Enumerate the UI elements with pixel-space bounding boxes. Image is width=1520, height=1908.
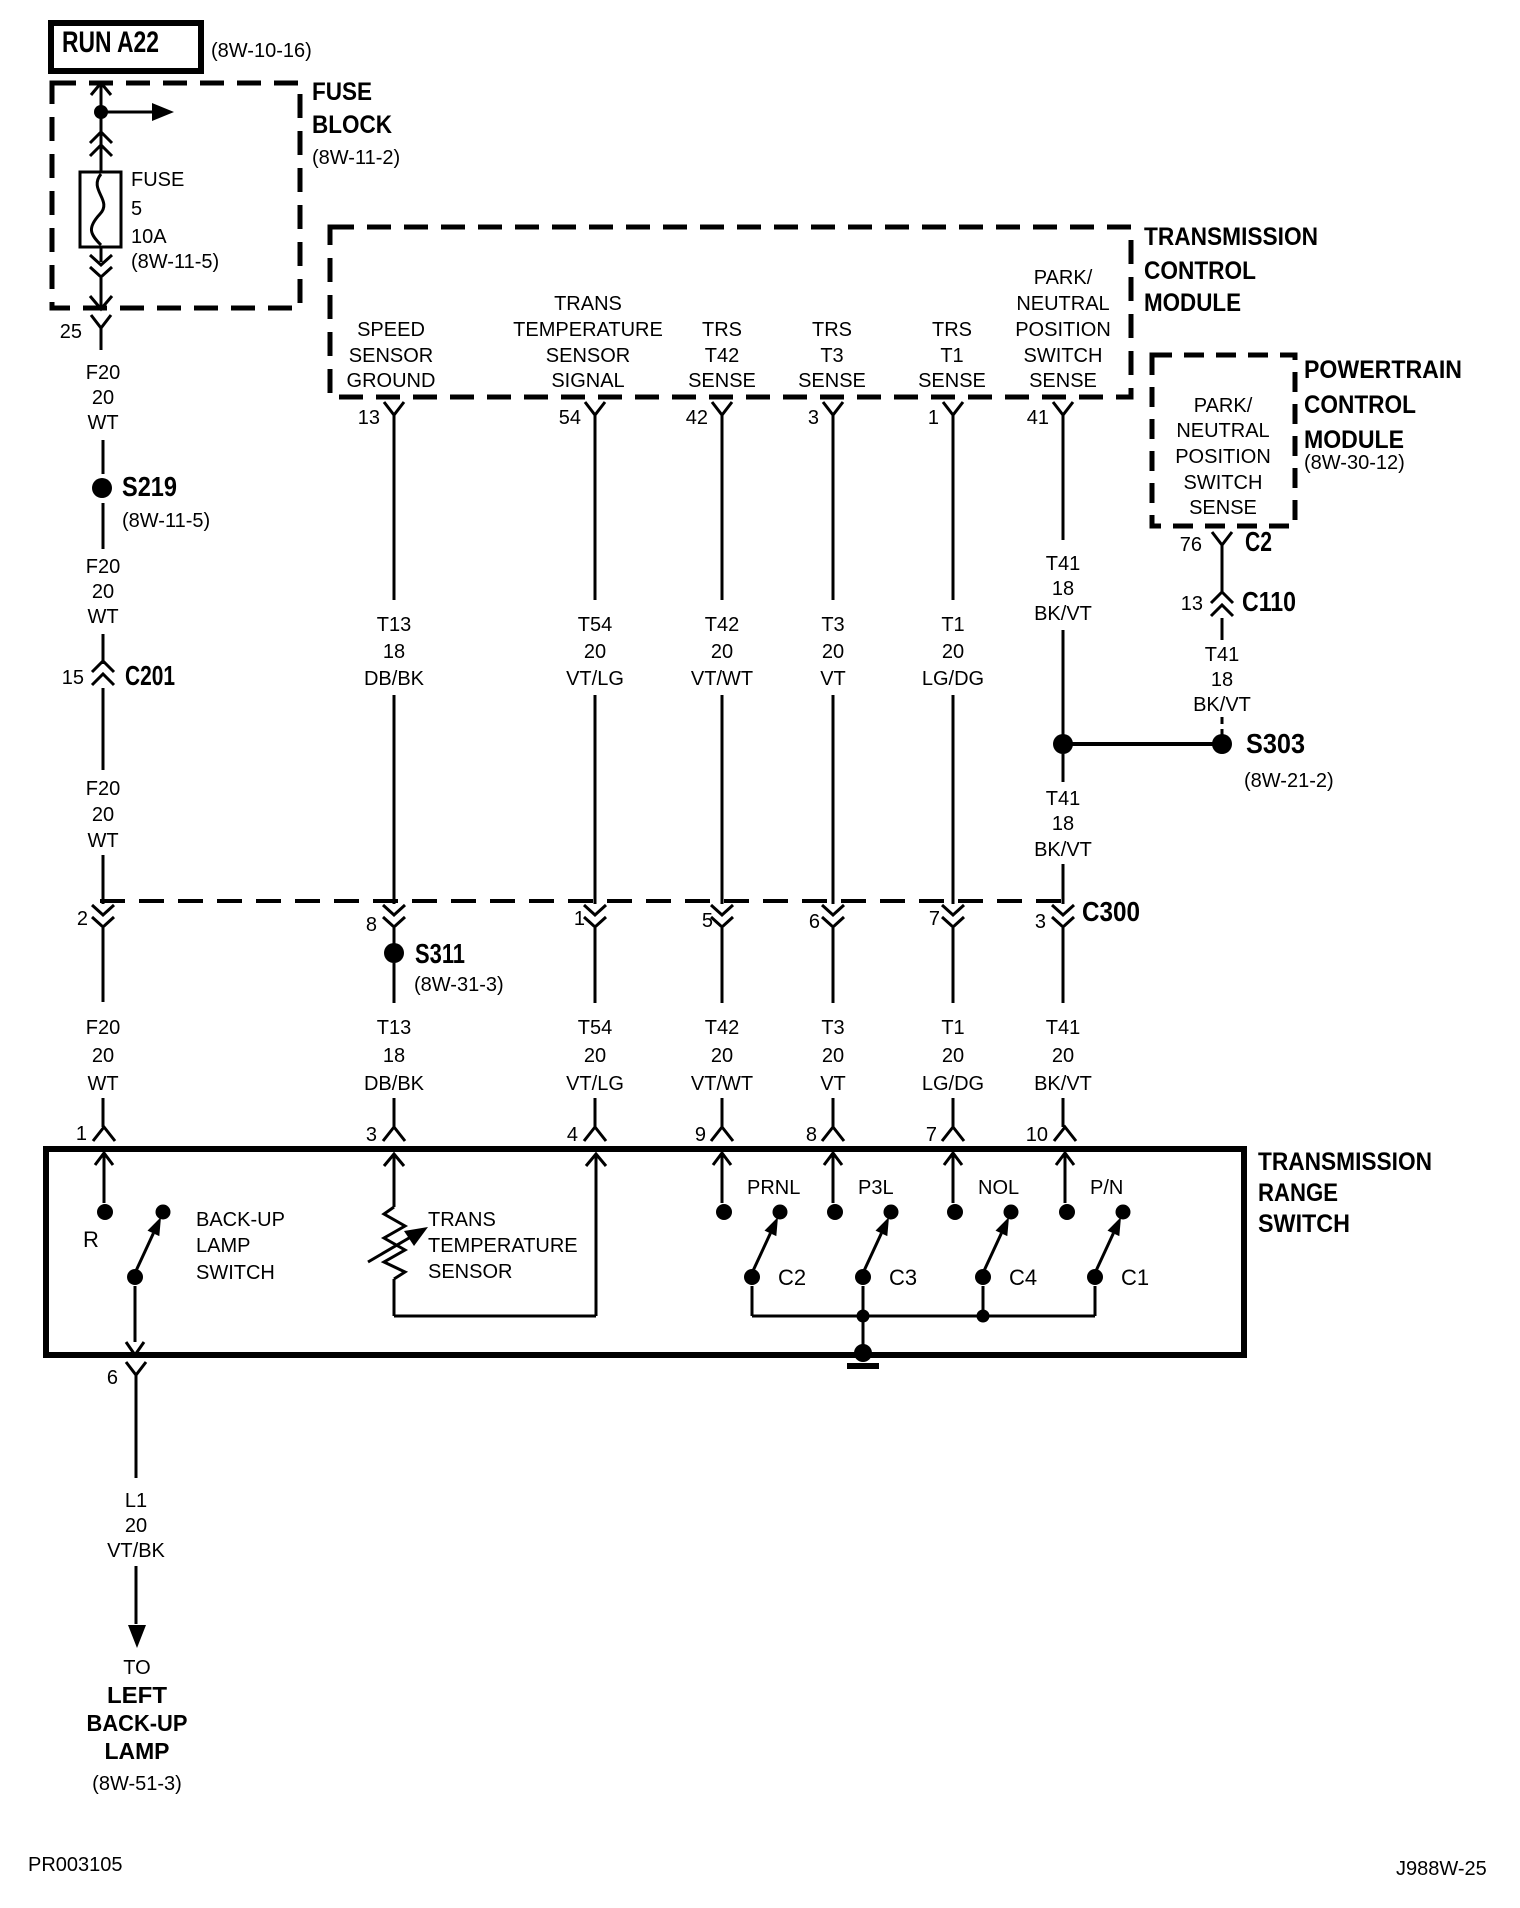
svg-text:TRANSMISSION: TRANSMISSION — [1144, 223, 1318, 251]
switch C4 arm — [983, 1233, 1001, 1273]
wire — [721, 928, 724, 1003]
wire speed sensor ground with arrowhead — [384, 1154, 404, 1166]
wire — [832, 1098, 835, 1127]
switch C2 arm — [752, 1233, 770, 1273]
transmission control module dashed box — [330, 227, 1131, 397]
svg-text:VT/BK: VT/BK — [107, 1540, 165, 1562]
svg-text:GROUND: GROUND — [347, 370, 436, 392]
back-up lamp switch contact — [156, 1205, 171, 1220]
wire to S303 — [1063, 742, 1222, 746]
switch C3 arm — [863, 1233, 881, 1273]
svg-text:20: 20 — [92, 804, 114, 826]
svg-text:3: 3 — [366, 1124, 377, 1146]
bus junction dot — [857, 1310, 870, 1323]
wire NOL with arrowhead — [944, 1153, 962, 1165]
back-up lamp switch arm — [135, 1233, 153, 1273]
node P/N — [1059, 1204, 1075, 1220]
svg-text:18: 18 — [1211, 669, 1233, 691]
svg-text:BK/VT: BK/VT — [1034, 603, 1092, 625]
wire below fuse — [100, 247, 103, 262]
switch C4 contact — [1004, 1205, 1019, 1220]
svg-text:PR003105: PR003105 — [28, 1854, 123, 1876]
svg-text:54: 54 — [559, 407, 581, 429]
fuse 5 10A — [80, 172, 121, 247]
wire — [102, 503, 105, 549]
wire to ground — [862, 1316, 865, 1352]
trans temperature sensor arrow — [368, 1231, 421, 1262]
svg-text:RUN A22: RUN A22 — [62, 26, 159, 59]
connector chevrons below fuse — [90, 255, 112, 265]
svg-text:T1: T1 — [941, 614, 964, 636]
transmission range switch box — [46, 1149, 1244, 1355]
wire T54 — [594, 433, 597, 600]
svg-text:J988W-25: J988W-25 — [1396, 1858, 1487, 1880]
svg-text:(8W-11-5): (8W-11-5) — [131, 251, 219, 273]
wire — [721, 695, 724, 904]
wire T42 — [721, 433, 724, 600]
svg-text:FUSE: FUSE — [131, 169, 184, 191]
svg-text:SENSOR: SENSOR — [349, 345, 433, 367]
wire PRNL with arrowhead — [713, 1153, 731, 1165]
wire — [721, 1098, 724, 1127]
svg-text:NOL: NOL — [978, 1177, 1019, 1199]
svg-text:(8W-11-5): (8W-11-5) — [122, 510, 210, 532]
svg-text:R: R — [83, 1227, 99, 1252]
wire — [1062, 630, 1065, 736]
svg-text:1: 1 — [928, 407, 939, 429]
svg-text:VT/LG: VT/LG — [566, 668, 624, 690]
switch C4 pivot — [975, 1269, 991, 1285]
svg-text:13: 13 — [1181, 593, 1203, 615]
wire T3 — [832, 433, 835, 600]
svg-text:FUSE: FUSE — [312, 78, 372, 106]
svg-text:PRNL: PRNL — [747, 1177, 800, 1199]
svg-text:SENSE: SENSE — [918, 370, 986, 392]
svg-text:20: 20 — [125, 1515, 147, 1537]
svg-text:TRS: TRS — [702, 319, 742, 341]
arrowhead down at fuse block edge — [90, 296, 112, 309]
switch C2 pivot — [744, 1269, 760, 1285]
svg-text:L1: L1 — [125, 1490, 147, 1512]
splice S303 — [1212, 734, 1232, 754]
bus junction dot — [977, 1310, 990, 1323]
wire — [1062, 864, 1065, 904]
wire from switch to pin 6 — [134, 1286, 137, 1342]
svg-text:T41: T41 — [1205, 644, 1239, 666]
svg-text:(8W-31-3): (8W-31-3) — [414, 974, 504, 996]
svg-text:T42: T42 — [705, 345, 739, 367]
svg-text:C2: C2 — [1245, 526, 1272, 557]
wire from RUN A22 into fuse block — [100, 84, 103, 172]
svg-text:20: 20 — [584, 1045, 606, 1067]
svg-text:LG/DG: LG/DG — [922, 1073, 984, 1095]
svg-text:PARK/: PARK/ — [1194, 395, 1253, 417]
svg-text:POWERTRAIN: POWERTRAIN — [1304, 356, 1462, 384]
svg-text:20: 20 — [711, 1045, 733, 1067]
svg-text:F20: F20 — [86, 778, 120, 800]
wire — [393, 963, 396, 1003]
svg-text:42: 42 — [686, 407, 708, 429]
arrowhead trans temperature signal — [586, 1154, 606, 1166]
wire — [952, 695, 955, 904]
wire — [832, 928, 835, 1003]
wire to fuse block edge — [100, 278, 103, 308]
svg-text:SWITCH: SWITCH — [1024, 345, 1103, 367]
svg-text:BK/VT: BK/VT — [1193, 694, 1251, 716]
wire — [952, 928, 955, 1003]
svg-text:VT: VT — [820, 1073, 846, 1095]
svg-text:2: 2 — [77, 908, 88, 930]
splice junction dot — [1053, 734, 1073, 754]
wire — [102, 1098, 105, 1127]
svg-text:VT/LG: VT/LG — [566, 1073, 624, 1095]
svg-text:TEMPERATURE: TEMPERATURE — [428, 1235, 578, 1257]
svg-text:3: 3 — [1035, 911, 1046, 933]
svg-text:SIGNAL: SIGNAL — [551, 370, 624, 392]
svg-text:BLOCK: BLOCK — [312, 111, 392, 139]
power feed box RUN A22 — [51, 23, 201, 71]
svg-text:SENSE: SENSE — [798, 370, 866, 392]
wire from sensor to signal pin — [393, 1279, 396, 1316]
svg-text:(8W-21-2): (8W-21-2) — [1244, 770, 1334, 792]
arrowhead up at fuse block edge — [91, 83, 111, 95]
svg-text:4: 4 — [567, 1124, 578, 1146]
svg-text:41: 41 — [1027, 407, 1049, 429]
wire — [102, 688, 105, 770]
svg-text:20: 20 — [1052, 1045, 1074, 1067]
svg-text:20: 20 — [92, 387, 114, 409]
svg-text:LAMP: LAMP — [105, 1738, 170, 1764]
svg-text:RANGE: RANGE — [1258, 1179, 1338, 1207]
wire — [1221, 563, 1224, 592]
svg-text:1: 1 — [76, 1123, 87, 1145]
svg-text:LAMP: LAMP — [196, 1235, 250, 1257]
svg-text:6: 6 — [107, 1367, 118, 1389]
wire — [102, 928, 105, 1002]
connector chevrons on feed wire — [90, 132, 112, 143]
svg-text:C1: C1 — [1121, 1265, 1149, 1290]
svg-text:T3: T3 — [820, 345, 843, 367]
svg-text:BACK-UP: BACK-UP — [196, 1209, 285, 1231]
svg-text:C4: C4 — [1009, 1265, 1037, 1290]
svg-text:T1: T1 — [941, 1017, 964, 1039]
powertrain control module dashed box — [1152, 355, 1295, 526]
svg-text:P3L: P3L — [858, 1177, 894, 1199]
svg-text:(8W-30-12): (8W-30-12) — [1304, 452, 1405, 474]
svg-text:SWITCH: SWITCH — [196, 1262, 275, 1284]
svg-text:TRANS: TRANS — [554, 293, 622, 315]
svg-text:7: 7 — [929, 908, 940, 930]
svg-text:TRANSMISSION: TRANSMISSION — [1258, 1148, 1432, 1176]
svg-text:POSITION: POSITION — [1015, 319, 1111, 341]
wire — [102, 634, 105, 664]
svg-text:F20: F20 — [86, 362, 120, 384]
svg-text:P/N: P/N — [1090, 1177, 1123, 1199]
svg-text:18: 18 — [383, 641, 405, 663]
svg-text:DB/BK: DB/BK — [364, 1073, 425, 1095]
svg-text:7: 7 — [926, 1124, 937, 1146]
svg-text:SENSE: SENSE — [1029, 370, 1097, 392]
svg-text:5: 5 — [131, 198, 142, 220]
svg-text:T41: T41 — [1046, 1017, 1080, 1039]
svg-text:T42: T42 — [705, 1017, 739, 1039]
svg-text:LEFT: LEFT — [107, 1682, 167, 1708]
svg-text:T41: T41 — [1046, 788, 1080, 810]
svg-text:SPEED: SPEED — [357, 319, 425, 341]
svg-text:(8W-11-2): (8W-11-2) — [312, 147, 400, 169]
svg-text:MODULE: MODULE — [1304, 426, 1404, 454]
svg-text:S303: S303 — [1246, 728, 1305, 759]
switch C3 contact — [884, 1205, 899, 1220]
node R — [97, 1204, 113, 1220]
svg-text:8: 8 — [806, 1124, 817, 1146]
svg-text:10A: 10A — [131, 226, 167, 248]
svg-text:CONTROL: CONTROL — [1304, 391, 1416, 419]
svg-text:VT: VT — [820, 668, 846, 690]
ground — [854, 1344, 872, 1362]
switch C1 contact — [1116, 1205, 1131, 1220]
wire C4 to bus — [982, 1286, 985, 1316]
wire T1 — [952, 433, 955, 600]
svg-text:8: 8 — [366, 914, 377, 936]
svg-text:20: 20 — [822, 641, 844, 663]
switch C2 contact — [773, 1205, 788, 1220]
svg-text:SWITCH: SWITCH — [1258, 1210, 1350, 1238]
wire — [135, 1395, 138, 1478]
svg-text:T54: T54 — [578, 614, 612, 636]
svg-text:20: 20 — [822, 1045, 844, 1067]
svg-text:TRS: TRS — [932, 319, 972, 341]
wire — [1221, 618, 1224, 640]
node P3L — [827, 1204, 843, 1220]
wire P/N with arrowhead — [1056, 1153, 1074, 1165]
ground bus wire — [752, 1315, 1095, 1318]
svg-text:WT: WT — [87, 606, 118, 628]
svg-text:20: 20 — [711, 641, 733, 663]
trans temperature sensor resistor — [384, 1207, 405, 1279]
svg-text:PARK/: PARK/ — [1034, 267, 1093, 289]
wire — [393, 1098, 396, 1127]
wire — [952, 1098, 955, 1127]
svg-text:C3: C3 — [889, 1265, 917, 1290]
svg-text:T3: T3 — [821, 614, 844, 636]
svg-text:15: 15 — [62, 667, 84, 689]
wire C2 to bus — [751, 1286, 754, 1316]
back-up lamp switch pivot — [127, 1269, 143, 1285]
svg-text:TEMPERATURE: TEMPERATURE — [513, 319, 663, 341]
svg-text:20: 20 — [942, 1045, 964, 1067]
svg-text:10: 10 — [1026, 1124, 1048, 1146]
switch C1 pivot — [1087, 1269, 1103, 1285]
fuse block dashed box — [52, 83, 300, 308]
node PRNL — [716, 1204, 732, 1220]
svg-text:C110: C110 — [1242, 586, 1296, 617]
wire T13 — [393, 433, 396, 600]
svg-text:S311: S311 — [415, 938, 465, 969]
svg-text:WT: WT — [87, 412, 118, 434]
svg-text:F20: F20 — [86, 556, 120, 578]
svg-text:18: 18 — [1052, 578, 1074, 600]
wire — [594, 1098, 597, 1127]
svg-text:SENSE: SENSE — [1189, 497, 1257, 519]
svg-text:SENSE: SENSE — [688, 370, 756, 392]
svg-text:TRS: TRS — [812, 319, 852, 341]
svg-text:T54: T54 — [578, 1017, 612, 1039]
svg-text:TRANS: TRANS — [428, 1209, 496, 1231]
wire — [102, 855, 105, 904]
svg-text:76: 76 — [1180, 534, 1202, 556]
svg-text:13: 13 — [358, 407, 380, 429]
wire — [1062, 1098, 1065, 1127]
svg-text:18: 18 — [1052, 813, 1074, 835]
svg-text:T3: T3 — [821, 1017, 844, 1039]
svg-text:BK/VT: BK/VT — [1034, 1073, 1092, 1095]
splice S219 — [92, 478, 112, 498]
svg-text:SENSOR: SENSOR — [546, 345, 630, 367]
svg-text:WT: WT — [87, 1073, 118, 1095]
svg-text:SENSOR: SENSOR — [428, 1261, 512, 1283]
svg-text:WT: WT — [87, 830, 118, 852]
svg-text:F20: F20 — [86, 1017, 120, 1039]
svg-text:BK/VT: BK/VT — [1034, 839, 1092, 861]
svg-text:TO: TO — [123, 1657, 150, 1679]
svg-text:T13: T13 — [377, 1017, 411, 1039]
svg-text:20: 20 — [92, 581, 114, 603]
wire — [393, 928, 396, 944]
connector C300 dashed line — [100, 899, 1066, 903]
wire P3L with arrowhead — [824, 1153, 842, 1165]
wire — [832, 695, 835, 904]
svg-text:SWITCH: SWITCH — [1184, 472, 1263, 494]
wire — [1062, 928, 1065, 1003]
svg-text:9: 9 — [695, 1124, 706, 1146]
wire T41 — [1062, 433, 1065, 540]
svg-text:S219: S219 — [122, 471, 177, 502]
svg-text:20: 20 — [942, 641, 964, 663]
wire C1 to bus — [1094, 1286, 1097, 1316]
svg-text:NEUTRAL: NEUTRAL — [1016, 293, 1109, 315]
wire C3 to bus — [862, 1286, 865, 1316]
wire — [594, 695, 597, 904]
switch C3 pivot — [855, 1269, 871, 1285]
svg-text:LG/DG: LG/DG — [922, 668, 984, 690]
svg-text:5: 5 — [702, 910, 713, 932]
svg-text:CONTROL: CONTROL — [1144, 257, 1256, 285]
svg-text:NEUTRAL: NEUTRAL — [1176, 420, 1269, 442]
wire — [102, 440, 105, 474]
wire to left back-up lamp — [135, 1566, 138, 1624]
svg-text:(8W-51-3): (8W-51-3) — [92, 1773, 182, 1795]
splice S311 — [384, 943, 404, 963]
svg-text:T13: T13 — [377, 614, 411, 636]
svg-text:1: 1 — [574, 908, 585, 930]
svg-text:VT/WT: VT/WT — [691, 1073, 753, 1095]
svg-text:(8W-10-16): (8W-10-16) — [211, 40, 312, 62]
svg-text:BACK-UP: BACK-UP — [87, 1710, 188, 1736]
svg-text:20: 20 — [584, 641, 606, 663]
wire R with arrowhead — [95, 1153, 113, 1165]
svg-text:C2: C2 — [778, 1265, 806, 1290]
wire — [393, 695, 396, 904]
svg-text:6: 6 — [809, 911, 820, 933]
switch C1 arm — [1095, 1233, 1113, 1273]
svg-text:20: 20 — [92, 1045, 114, 1067]
svg-text:T1: T1 — [940, 345, 963, 367]
wire — [594, 928, 597, 1003]
svg-text:18: 18 — [383, 1045, 405, 1067]
svg-text:MODULE: MODULE — [1144, 289, 1241, 317]
node NOL — [947, 1204, 963, 1220]
wire — [1221, 717, 1224, 724]
svg-text:T41: T41 — [1046, 553, 1080, 575]
branch arrow to right — [101, 111, 153, 114]
svg-text:VT/WT: VT/WT — [691, 668, 753, 690]
svg-text:POSITION: POSITION — [1175, 446, 1271, 468]
junction dot — [94, 105, 108, 119]
svg-text:T42: T42 — [705, 614, 739, 636]
wire — [1062, 754, 1065, 782]
svg-text:C300: C300 — [1082, 896, 1140, 927]
svg-text:C201: C201 — [125, 660, 175, 691]
svg-text:25: 25 — [60, 321, 82, 343]
svg-text:DB/BK: DB/BK — [364, 668, 425, 690]
svg-text:3: 3 — [808, 407, 819, 429]
